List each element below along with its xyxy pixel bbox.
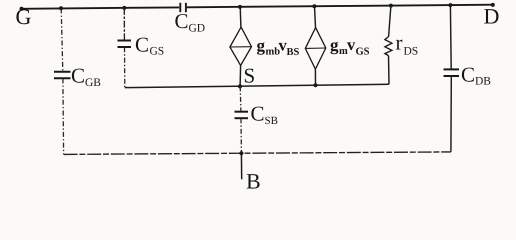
wire bottom rail B bbox=[64, 152, 451, 155]
svg-text:S: S bbox=[244, 64, 256, 88]
wire stem above resistor r_DS bbox=[389, 6, 391, 37]
svg-text:C: C bbox=[135, 33, 149, 57]
wire C_GS branch lower bbox=[124, 47, 126, 87]
capacitor C_SB value label bbox=[251, 102, 278, 128]
wire C_GB branch lower bbox=[62, 78, 65, 154]
node G terminal dot bbox=[20, 7, 24, 11]
svg-text:g: g bbox=[257, 36, 266, 55]
node B label bbox=[246, 169, 261, 194]
junction dot below g_m on S rail bbox=[313, 83, 317, 87]
wire stem above source g_m bbox=[315, 6, 316, 27]
svg-text:DB: DB bbox=[475, 76, 491, 88]
node D terminal dot bbox=[491, 3, 495, 7]
svg-text:G: G bbox=[16, 4, 32, 29]
svg-text:D: D bbox=[484, 4, 500, 29]
wire top rail (right segment after C_GD) bbox=[187, 5, 494, 8]
svg-text:GS: GS bbox=[150, 46, 165, 58]
junction dot at x=314 on top rail bbox=[312, 4, 316, 8]
dependent source g_m·v_GS diamond bbox=[305, 28, 326, 70]
svg-text:r: r bbox=[396, 31, 403, 55]
node D label bbox=[484, 4, 500, 29]
capacitor C_GB value label bbox=[71, 64, 101, 90]
svg-text:GS: GS bbox=[356, 47, 370, 58]
node S label bbox=[244, 64, 256, 88]
svg-text:BS: BS bbox=[287, 47, 300, 58]
wire stem below source g_mb bbox=[239, 66, 242, 87]
wire stem below source g_m bbox=[314, 69, 316, 85]
capacitor C_SB plates bbox=[235, 112, 249, 119]
svg-text:g: g bbox=[330, 36, 339, 55]
dependent source g_mb·v_BS diamond bbox=[230, 27, 252, 65]
wire stem below resistor r_DS bbox=[388, 56, 391, 85]
capacitor C_DB value label bbox=[461, 63, 491, 88]
resistor r_DS value label bbox=[396, 31, 419, 58]
capacitor C_GD plates bbox=[180, 3, 186, 12]
junction dot at x=450 on top rail bbox=[448, 3, 452, 7]
wire C_DB branch lower bbox=[450, 76, 452, 152]
wire B stem bbox=[240, 153, 242, 179]
wire C_GS branch upper bbox=[123, 8, 125, 40]
svg-text:C: C bbox=[461, 63, 475, 87]
svg-text:GB: GB bbox=[85, 77, 101, 89]
capacitor C_GD value label bbox=[175, 9, 206, 35]
wire top rail G to D (left segment) bbox=[21, 7, 180, 8]
junction dot at x=391 on top rail bbox=[389, 4, 393, 8]
wire C_DB branch upper bbox=[449, 5, 452, 69]
source g_mb·v_BS value label bbox=[257, 36, 300, 59]
svg-text:C: C bbox=[175, 9, 189, 33]
svg-text:C: C bbox=[71, 64, 85, 88]
node G label bbox=[16, 4, 32, 29]
svg-text:DS: DS bbox=[404, 46, 419, 58]
capacitor C_GS value label bbox=[135, 33, 164, 58]
capacitor C_GS plates bbox=[118, 41, 132, 48]
svg-text:SB: SB bbox=[265, 115, 278, 127]
wire stem above source g_mb bbox=[239, 7, 242, 27]
svg-text:C: C bbox=[251, 102, 265, 126]
source g_m·v_GS value label bbox=[330, 35, 370, 58]
wire C_GB branch upper bbox=[61, 8, 63, 71]
svg-text:GD: GD bbox=[189, 23, 206, 35]
capacitor C_GB plates bbox=[54, 72, 71, 78]
node S junction dot bbox=[238, 84, 242, 88]
wire C_SB stem lower to bottom rail bbox=[240, 118, 242, 153]
capacitor C_DB plates bbox=[444, 69, 460, 76]
svg-text:B: B bbox=[246, 169, 261, 194]
wire C_SB stem upper from node S bbox=[239, 86, 242, 111]
junction dot at x=124 on top rail bbox=[122, 6, 126, 10]
resistor r_DS zigzag bbox=[385, 37, 392, 56]
junction dot at x=240 on top rail bbox=[238, 5, 242, 9]
wire S rail bbox=[125, 84, 389, 87]
junction dot bottom rail at B stem bbox=[239, 151, 243, 155]
junction dot at x=61 on top rail bbox=[59, 6, 63, 10]
